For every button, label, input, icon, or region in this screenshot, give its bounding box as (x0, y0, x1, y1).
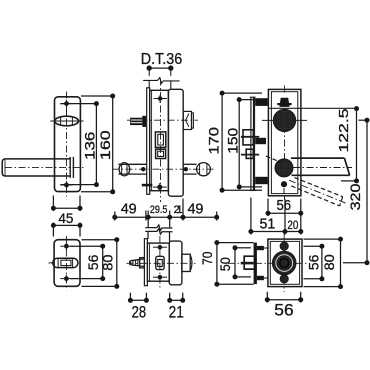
svg-text:320: 320 (348, 184, 363, 211)
svg-text:170: 170 (207, 127, 222, 155)
svg-text:80: 80 (100, 255, 115, 271)
svg-text:150: 150 (225, 128, 240, 154)
svg-text:21: 21 (174, 204, 183, 216)
svg-text:80: 80 (322, 254, 337, 270)
svg-text:56: 56 (86, 255, 101, 271)
svg-text:28: 28 (132, 302, 147, 321)
svg-text:160: 160 (98, 130, 113, 160)
svg-text:51: 51 (260, 217, 276, 233)
svg-text:20: 20 (287, 218, 298, 232)
svg-text:50: 50 (218, 257, 233, 271)
svg-text:70: 70 (200, 252, 215, 266)
svg-text:21: 21 (169, 302, 184, 321)
svg-text:136: 136 (82, 132, 97, 160)
svg-text:45: 45 (58, 211, 73, 226)
svg-text:49: 49 (121, 202, 137, 218)
svg-text:122.5: 122.5 (337, 108, 351, 152)
svg-text:29.5: 29.5 (150, 204, 168, 216)
svg-text:56: 56 (274, 300, 293, 319)
svg-text:56: 56 (277, 198, 292, 214)
svg-text:56: 56 (307, 255, 322, 271)
svg-text:49: 49 (188, 202, 204, 218)
svg-text:D.T.36: D.T.36 (141, 51, 183, 68)
